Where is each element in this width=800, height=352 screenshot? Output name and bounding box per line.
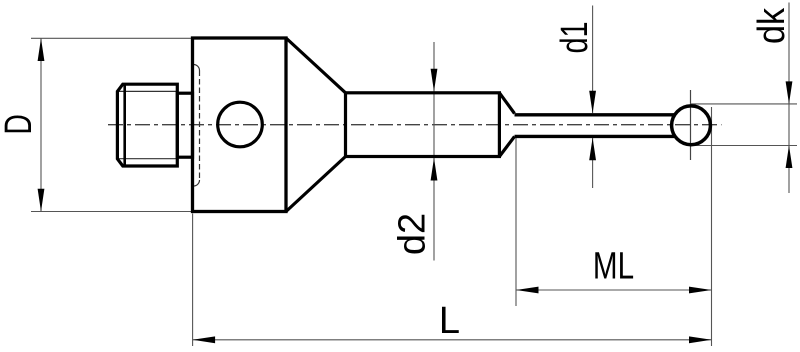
shared extension line right bbox=[711, 107, 713, 346]
ball vertical centerline bbox=[690, 90, 692, 160]
dimension D arrow up bbox=[38, 38, 45, 61]
dimension d1 arrow down bbox=[589, 91, 596, 113]
svg-text:D: D bbox=[0, 114, 40, 134]
body block bbox=[193, 38, 287, 212]
ball bbox=[672, 106, 711, 145]
dimension L line bbox=[193, 339, 712, 341]
svg-text:d1: d1 bbox=[553, 21, 596, 53]
block relief top arc bbox=[194, 65, 200, 71]
dimension ML extension line left bbox=[515, 138, 517, 306]
dimension d2 arrow down bbox=[431, 69, 438, 92]
dimension L arrow right bbox=[689, 336, 712, 343]
stem top edge bbox=[515, 113, 675, 116]
shaft bbox=[346, 93, 500, 157]
dimension dk extension line top bbox=[690, 103, 797, 105]
dimension D arrow down bbox=[38, 189, 45, 212]
dimension ML arrow left bbox=[516, 287, 539, 294]
svg-text:ML: ML bbox=[593, 245, 634, 287]
block relief dashed line bbox=[199, 71, 201, 181]
stem bottom edge bbox=[515, 135, 675, 138]
dimension d1 line upper bbox=[592, 6, 594, 114]
dimension L extension line left bbox=[192, 214, 194, 347]
block relief bottom arc bbox=[194, 180, 200, 186]
svg-text:d2: d2 bbox=[392, 213, 434, 255]
end taper bbox=[499, 93, 514, 157]
dimension D extension line bottom bbox=[31, 211, 191, 213]
dimension D line bbox=[40, 38, 42, 211]
thread minor line bottom bbox=[119, 158, 177, 160]
dimension D extension line top bbox=[31, 37, 191, 39]
cone bbox=[286, 38, 346, 212]
dimension d2 line bbox=[433, 42, 435, 261]
dimension d2 arrow up bbox=[431, 158, 438, 181]
dimension ML arrow right bbox=[689, 287, 712, 294]
svg-text:L: L bbox=[439, 300, 460, 342]
stud thread outline bbox=[117, 84, 177, 166]
dimension dk arrow up bbox=[786, 146, 793, 169]
dimension dk extension line bottom bbox=[691, 145, 797, 147]
dimension d1 line lower bbox=[592, 138, 594, 188]
neck bbox=[177, 93, 192, 157]
hole circle bbox=[218, 102, 263, 147]
svg-text:dk: dk bbox=[749, 7, 792, 44]
dimension dk arrow down bbox=[786, 81, 793, 104]
dimension ML line bbox=[516, 289, 712, 291]
dimension L arrow left bbox=[193, 336, 216, 343]
axis centerline bbox=[108, 124, 722, 126]
dimension dk line bbox=[788, 3, 790, 194]
thread minor line top bbox=[119, 90, 177, 92]
dimension d1 arrow up bbox=[589, 138, 596, 160]
stud chamfer inner line bbox=[123, 84, 126, 166]
